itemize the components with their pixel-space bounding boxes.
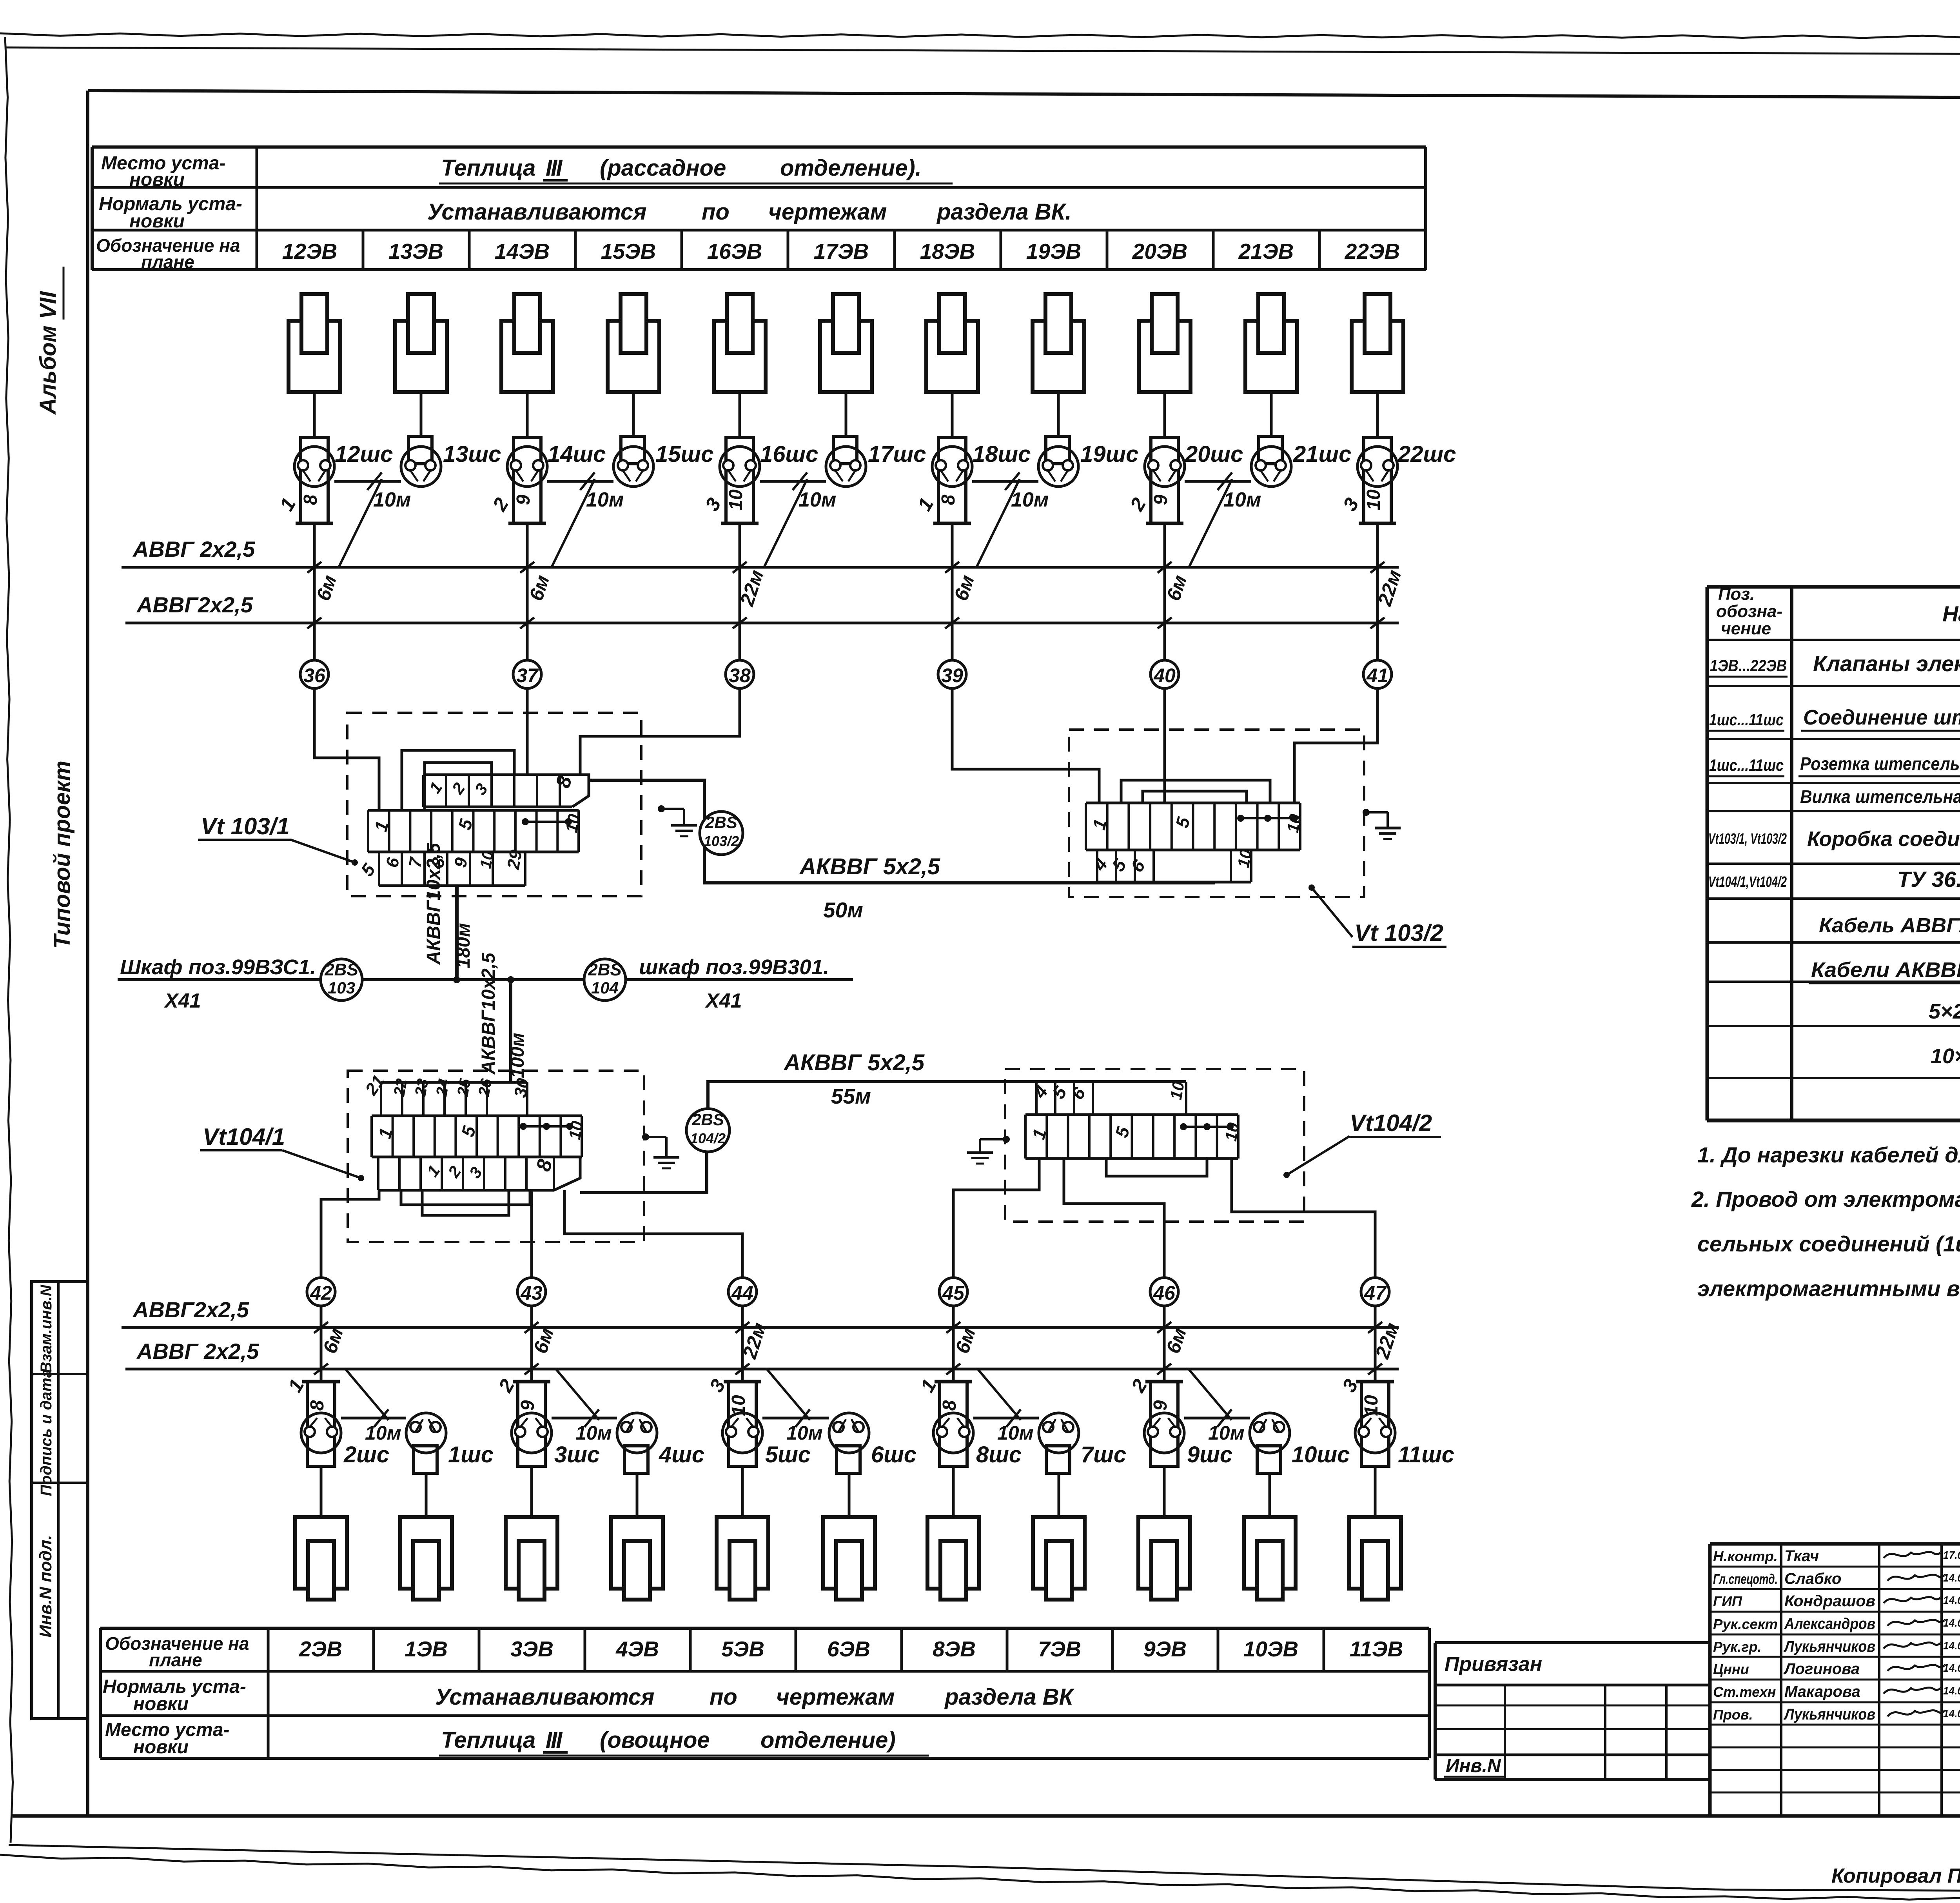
wire drop 38 [733, 523, 768, 660]
wire node 40 to strip [1163, 688, 1166, 803]
svg-text:АВВГ 2х2,5: АВВГ 2х2,5 [136, 1339, 259, 1364]
solenoid valve 19ЭВ [1033, 294, 1084, 392]
svg-text:9ЭВ: 9ЭВ [1143, 1637, 1187, 1661]
top table row Теплица III рассадное отделение [439, 155, 953, 183]
top table cell 22ЭВ [1319, 230, 1400, 270]
wire drop 39 [945, 523, 978, 660]
svg-text:6шс: 6шс [871, 1442, 916, 1467]
svg-text:39: 39 [941, 665, 963, 686]
svg-text:43: 43 [520, 1282, 543, 1304]
node 37 [513, 660, 541, 688]
svg-text:26: 26 [475, 1077, 495, 1098]
node 45 [939, 1278, 967, 1306]
svg-text:2. Провод от электромагнитны: 2. Провод от электромагнитных вентилей (… [1691, 1187, 1960, 1211]
margin label Подпись и дата [38, 1369, 55, 1496]
terminal strip main Vt104/1 [372, 1116, 586, 1157]
top table cell 17ЭВ [788, 230, 869, 270]
svg-text:10: 10 [477, 850, 497, 870]
svg-text:АКВВГ10х2,5: АКВВГ10х2,5 [478, 952, 499, 1075]
bottom table cell 6ЭВ [796, 1628, 870, 1671]
parts row Кабели АКВВГ [1809, 958, 1960, 983]
svg-text:новки: новки [129, 169, 185, 190]
note 1 [1697, 1142, 1960, 1167]
svg-text:25: 25 [454, 1077, 474, 1098]
svg-text:10м: 10м [997, 1422, 1034, 1444]
svg-text:новки: новки [133, 1694, 189, 1714]
bus АВВГ 2х2,5 (fourth) [125, 1339, 1399, 1369]
svg-text:1ЭВ...22ЭВ: 1ЭВ...22ЭВ [1710, 656, 1787, 675]
svg-text:Теплица: Теплица [441, 1727, 535, 1753]
margin label Взам.инв.N [38, 1284, 55, 1373]
svg-text:55м: 55м [831, 1084, 871, 1108]
svg-text:Теплица: Теплица [441, 155, 535, 181]
wire [1163, 392, 1166, 438]
title row Н.контр. [1713, 1547, 1960, 1565]
plug-socket connector 16шс with fuse 10 [701, 438, 818, 523]
wire [1376, 392, 1379, 438]
svg-text:Наименование: Наименование [1942, 601, 1960, 626]
svg-text:50м: 50м [823, 898, 863, 922]
wire pair 5шс-6шс 10м [762, 1369, 829, 1444]
svg-text:29: 29 [504, 848, 526, 871]
top table cell 19ЭВ [1001, 230, 1081, 270]
svg-text:5шс: 5шс [765, 1442, 811, 1467]
parts table header [1716, 585, 1960, 638]
wire drop 45 [946, 1306, 980, 1382]
svg-text:9: 9 [517, 1400, 538, 1411]
solenoid valve 21ЭВ [1245, 294, 1297, 392]
svg-text:14шс: 14шс [548, 441, 606, 467]
wire [952, 1466, 955, 1517]
solenoid valve 15ЭВ [608, 294, 659, 392]
label Инв.N [1444, 1756, 1504, 1777]
bus АВВГ 2х2,5 (lower) [125, 592, 1399, 623]
svg-text:103: 103 [328, 979, 355, 997]
parts row Соединение штепсельное [1708, 706, 1960, 731]
bottom table cell 11ЭВ [1324, 1628, 1403, 1671]
terminal strip main Vt103/2 [1086, 803, 1305, 850]
svg-text:электромагнитными вентилями ф: электромагнитными вентилями фирмой „ Тел… [1697, 1276, 1960, 1301]
solenoid valve 8ЭВ [927, 1517, 979, 1600]
terminal strip lower Vt103/1 [357, 848, 526, 886]
svg-text:Инв.N: Инв.N [1446, 1756, 1501, 1776]
wire 2BS104/2 to Vt104/2 [708, 1082, 1186, 1109]
svg-text:2BS: 2BS [324, 960, 358, 979]
node 40 [1151, 660, 1179, 688]
wire pair 16шс-17шс 10м [760, 472, 836, 567]
bus АВВГ2х2,5 (third) [122, 1297, 1399, 1327]
svg-text:Рук.гр.: Рук.гр. [1713, 1639, 1762, 1655]
svg-text:10: 10 [1363, 489, 1384, 510]
margin text Альбом VII [35, 267, 64, 415]
svg-text:АКВВГ 5х2,5: АКВВГ 5х2,5 [799, 854, 940, 879]
bottom table label Место установки [105, 1720, 229, 1758]
svg-text:по: по [702, 199, 730, 225]
torn paper edge bottom [0, 1855, 1960, 1903]
svg-text:10шс: 10шс [1292, 1442, 1350, 1467]
svg-text:Логинова: Логинова [1783, 1660, 1860, 1678]
label Vt103/1 [198, 813, 358, 866]
wire node 39 to strip [952, 688, 1099, 803]
svg-text:14.01.86: 14.01.86 [1943, 1707, 1960, 1720]
node 41 [1363, 660, 1392, 688]
svg-text:8: 8 [939, 1400, 960, 1411]
svg-text:41: 41 [1366, 665, 1388, 686]
svg-text:Лукьянчиков: Лукьянчиков [1783, 1638, 1875, 1655]
svg-text:14.01.86: 14.01.86 [1943, 1617, 1960, 1629]
plug-socket connector 17шс [826, 436, 926, 487]
svg-text:Гл.спецотд.: Гл.спецотд. [1713, 1571, 1778, 1587]
plug-socket connector 2шс with fuse 8 [284, 1375, 389, 1467]
svg-text:Вилка штепсельная с уплотненны: Вилка штепсельная с уплотненным вводом У… [1800, 786, 1960, 807]
sheet cut edge left [5, 37, 13, 1843]
plug-socket connector 5шс with fuse 10 [705, 1375, 811, 1467]
svg-text:13шс: 13шс [443, 441, 501, 467]
parts row Вилка штепсельная [1800, 782, 1960, 807]
margin label Инв.N подл. [36, 1535, 55, 1638]
svg-text:III: III [546, 155, 563, 181]
bottom table frame [100, 1628, 1429, 1758]
solenoid valve 11ЭВ [1349, 1517, 1401, 1600]
bottom table cell 9ЭВ [1112, 1628, 1187, 1671]
bottom table cell 5ЭВ [690, 1628, 764, 1671]
wire [526, 392, 529, 438]
svg-text:Лукьянчиков: Лукьянчиков [1783, 1706, 1875, 1723]
wire drop 40 [1158, 523, 1191, 660]
svg-text:18шс: 18шс [973, 441, 1031, 467]
svg-text:22ЭВ: 22ЭВ [1345, 239, 1400, 263]
svg-text:9: 9 [1150, 1400, 1171, 1411]
svg-text:8ЭВ: 8ЭВ [933, 1637, 976, 1661]
wire node 47 to strip [1232, 1159, 1375, 1278]
wire [1269, 1473, 1271, 1517]
svg-text:42: 42 [310, 1282, 332, 1304]
svg-text:180м: 180м [453, 923, 474, 968]
title row Ст.техн [1713, 1683, 1960, 1700]
top table frame [92, 147, 1426, 270]
wire [1374, 1466, 1377, 1517]
bus АВВГ 2х2,5 (upper) [122, 537, 1399, 567]
terminal strip upper Vt103/1 [423, 774, 589, 807]
svg-text:Коробка соединительная КС-10: Коробка соединительная КС-10 [1807, 827, 1960, 851]
wire node 46 to strip [1064, 1159, 1164, 1278]
svg-text:Альбом VII: Альбом VII [35, 291, 61, 415]
svg-text:4ЭВ: 4ЭВ [615, 1637, 659, 1661]
solenoid valve 10ЭВ [1244, 1517, 1296, 1600]
svg-text:Кабель АВВГ2х2,5-0,66 ГОСТ 1: Кабель АВВГ2х2,5-0,66 ГОСТ 16442-80 [1819, 914, 1960, 937]
svg-text:III: III [546, 1727, 563, 1753]
svg-text:Александров: Александров [1784, 1615, 1875, 1632]
svg-text:11шс: 11шс [1398, 1442, 1454, 1467]
wire nest Vt104/2 [1106, 1159, 1207, 1176]
wire [1057, 392, 1060, 436]
plug-socket connector 15шс [613, 436, 713, 487]
svg-text:36: 36 [303, 665, 326, 686]
svg-text:15шс: 15шс [655, 441, 713, 467]
svg-text:Устанавливаются: Устанавливаются [427, 199, 646, 225]
junction box Vt104/1 dashed outline [348, 1071, 644, 1242]
svg-text:обозна-: обозна- [1716, 602, 1782, 621]
wire pair 12шс-13шс 10м [334, 472, 411, 567]
plug-socket connector 18шс with fuse 8 [913, 438, 1031, 523]
svg-text:Подпись и дата: Подпись и дата [38, 1369, 55, 1496]
wire [951, 392, 954, 438]
svg-text:1шс...11шс: 1шс...11шс [1709, 710, 1784, 729]
svg-text:10: 10 [1361, 1395, 1382, 1416]
svg-text:1ЭВ: 1ЭВ [405, 1637, 448, 1661]
svg-text:9: 9 [513, 494, 534, 505]
note 2 line 1 [1691, 1187, 1960, 1211]
wire node 41 to strip [1294, 688, 1377, 803]
svg-text:2ЭВ: 2ЭВ [299, 1637, 342, 1661]
node 2BS 103/2 [700, 812, 743, 855]
top table cell 16ЭВ [682, 230, 762, 270]
svg-text:23: 23 [412, 1077, 432, 1098]
svg-text:новки: новки [133, 1737, 189, 1758]
plug-socket connector 12шс with fuse 8 [276, 438, 393, 523]
svg-text:Vt103/1, Vt103/2: Vt103/1, Vt103/2 [1708, 831, 1787, 847]
wire pair 9шс-10шс 10м [1184, 1369, 1250, 1444]
svg-text:40: 40 [1153, 665, 1176, 686]
top table label Место установки [101, 153, 225, 190]
solenoid valve 20ЭВ [1139, 294, 1191, 392]
svg-text:14.01.86: 14.01.86 [1943, 1594, 1960, 1606]
wire Vt104/1 to 2BS104/2 [580, 1153, 707, 1193]
svg-text:Н.контр.: Н.контр. [1713, 1548, 1778, 1564]
svg-text:16шс: 16шс [760, 441, 818, 467]
svg-text:Устанавливаются: Устанавливаются [435, 1684, 654, 1710]
label Привязан [1445, 1653, 1542, 1676]
wire [1058, 1473, 1060, 1517]
node 46 [1150, 1278, 1178, 1306]
svg-text:Макарова: Макарова [1784, 1683, 1860, 1700]
solenoid valve 14ЭВ [501, 294, 553, 392]
wire Vt103/1 to 2BS103/2 [589, 780, 1215, 883]
plug-socket connector 20шс with fuse 9 [1125, 438, 1243, 523]
solenoid valve 16ЭВ [714, 294, 766, 392]
title row Пров. [1713, 1706, 1960, 1723]
svg-text:5ЭВ: 5ЭВ [721, 1637, 764, 1661]
svg-text:8: 8 [938, 494, 959, 505]
svg-text:21шс: 21шс [1293, 441, 1351, 467]
svg-text:Привязан: Привязан [1445, 1653, 1542, 1676]
svg-text:15ЭВ: 15ЭВ [601, 239, 656, 263]
terminal strip upper Vt104/1 [361, 1072, 533, 1116]
terminal strip lower Vt104/1 [378, 1157, 580, 1190]
wire drop 46 [1157, 1306, 1191, 1382]
svg-text:44: 44 [731, 1282, 753, 1304]
wire [845, 392, 848, 436]
torn paper edge top [0, 33, 1960, 39]
wire [1270, 392, 1273, 436]
solenoid valve 5ЭВ [717, 1517, 768, 1600]
node 39 [938, 660, 966, 688]
svg-text:3ЭВ: 3ЭВ [510, 1637, 554, 1661]
svg-text:17.01.86: 17.01.86 [1943, 1549, 1960, 1561]
title block frame [1710, 1544, 1960, 1815]
plug-socket connector 13шс [401, 436, 501, 487]
plug-socket connector 7шс [1039, 1413, 1126, 1473]
svg-text:14ЭВ: 14ЭВ [495, 239, 550, 263]
svg-text:Ткач: Ткач [1784, 1547, 1819, 1565]
margin text Типовой проект [49, 761, 75, 949]
svg-text:20шс: 20шс [1185, 441, 1243, 467]
label Vt103/2 [1308, 884, 1446, 947]
svg-text:плане: плане [141, 252, 194, 272]
wire шкаф 99В3С1 [118, 978, 321, 981]
svg-text:АКВВГ 5х2,5: АКВВГ 5х2,5 [783, 1050, 925, 1075]
plug-socket connector 19шс [1038, 436, 1138, 487]
bottom table cell 10ЭВ [1218, 1628, 1298, 1671]
svg-text:2шс: 2шс [343, 1442, 389, 1467]
plug-socket connector 9шс with fuse 9 [1127, 1375, 1232, 1467]
svg-text:АВВГ2х2,5: АВВГ2х2,5 [132, 1297, 249, 1322]
top table label Обозначение на плане [96, 235, 240, 272]
junction box Vt103/2 dashed outline [1069, 730, 1364, 897]
wire [313, 392, 316, 438]
solenoid valve 13ЭВ [395, 294, 447, 392]
wire drop 36 [307, 523, 341, 660]
svg-text:9: 9 [1151, 494, 1171, 505]
ground Vt104/2 [967, 1136, 1010, 1164]
top table label Нормаль установки [99, 194, 242, 232]
terminal strip lower Vt103/2 [1089, 848, 1255, 882]
svg-text:104/2: 104/2 [690, 1130, 726, 1146]
parts row Клапаны электромагнитные [1709, 648, 1960, 677]
wire drop 44 [735, 1306, 771, 1382]
label Копировал Полякова [1831, 1865, 1960, 1887]
node 43 [517, 1278, 546, 1306]
wire node 36 to strip [314, 688, 379, 810]
sheet cut edge top [5, 47, 1960, 56]
svg-text:плане: плане [149, 1650, 202, 1670]
svg-text:10м: 10м [373, 488, 411, 511]
svg-text:12ЭВ: 12ЭВ [282, 239, 337, 263]
svg-text:ТУ 36.1764- 79: ТУ 36.1764- 79 [1897, 867, 1960, 892]
bottom table cell 2ЭВ [268, 1628, 342, 1671]
wire [530, 1466, 533, 1517]
wire node 44 to strip [564, 1190, 742, 1278]
svg-text:22шс: 22шс [1397, 441, 1456, 467]
ground Vt104/1 [642, 1133, 679, 1168]
plug-socket connector 4шс [617, 1413, 704, 1473]
svg-text:8: 8 [307, 1400, 328, 1411]
svg-text:10м: 10м [365, 1422, 401, 1444]
wire drop 41 [1370, 523, 1406, 660]
svg-text:ГИП: ГИП [1713, 1593, 1742, 1609]
svg-text:10×2,5: 10×2,5 [1931, 1044, 1960, 1068]
svg-text:(овощное: (овощное [600, 1727, 710, 1753]
label шкаф поз.99В301 Х41 [639, 955, 829, 1012]
bottom table cell 7ЭВ [1007, 1628, 1081, 1671]
wire pair 18шс-19шс 10м [972, 472, 1049, 567]
svg-text:9шс: 9шс [1187, 1442, 1232, 1467]
svg-text:20ЭВ: 20ЭВ [1132, 239, 1187, 263]
svg-text:10м: 10м [786, 1422, 823, 1444]
plug-socket connector 10шс [1250, 1413, 1350, 1473]
bottom table row Теплица III овощное отделение [439, 1727, 929, 1756]
top table row Устанавливаются по чертежам раздела ВК [427, 199, 1071, 225]
solenoid valve 1ЭВ [400, 1517, 452, 1600]
svg-text:Пров.: Пров. [1713, 1707, 1753, 1723]
wire [636, 1473, 639, 1517]
svg-text:21ЭВ: 21ЭВ [1238, 239, 1294, 263]
svg-text:(рассадное: (рассадное [600, 155, 726, 181]
svg-text:отделение).: отделение). [780, 155, 922, 181]
bottom table label Обозначение на плане [105, 1633, 249, 1670]
svg-text:по: по [710, 1684, 737, 1710]
parts row Розетка штепсельная [1708, 749, 1960, 776]
terminal strip main Vt103/1 [368, 810, 583, 852]
wire node 43 to strip [530, 1190, 533, 1278]
wire drop 43 [524, 1306, 558, 1382]
cable drop АКВВГ 10х2,5 100м [478, 952, 528, 1082]
svg-text:Типовой проект: Типовой проект [49, 761, 75, 949]
wire node 42 to strip [321, 1190, 379, 1278]
wire nest Vt103/1 [402, 750, 514, 810]
top table cell 18ЭВ [895, 230, 975, 270]
node 36 [300, 660, 328, 688]
title row Гл.спецотд. [1713, 1570, 1960, 1587]
node 42 [307, 1278, 335, 1306]
svg-text:8: 8 [300, 494, 321, 505]
svg-text:2BS: 2BS [705, 813, 737, 832]
solenoid valve 9ЭВ [1138, 1517, 1190, 1600]
svg-text:чение: чение [1721, 619, 1771, 638]
svg-text:Клапаны электромагнитные: Клапаны электромагнитные [1813, 651, 1960, 676]
svg-text:8шс: 8шс [976, 1442, 1022, 1467]
wire шкаф 99В301 [626, 978, 853, 981]
frame border top [88, 91, 1960, 99]
svg-text:Взам.инв.N: Взам.инв.N [38, 1284, 55, 1373]
svg-text:3шс: 3шс [554, 1442, 600, 1467]
bottom table cell 3ЭВ [479, 1628, 554, 1671]
wire drop 42 [314, 1306, 347, 1382]
bottom table cell 4ЭВ [585, 1628, 659, 1671]
cable label АКВВГ 5х2,5 55м [783, 1050, 925, 1108]
wire drop 47 [1368, 1306, 1403, 1382]
svg-text:Рук.сект: Рук.сект [1713, 1616, 1778, 1632]
label Шкаф поз.99В3С1 Х41 [120, 955, 316, 1012]
frame border bottom [13, 1814, 1960, 1818]
svg-text:5×2,5: 5×2,5 [1929, 1000, 1960, 1023]
svg-text:10м: 10м [1223, 488, 1261, 511]
bottom table row Устанавливаются по чертежам раздела ВК [435, 1684, 1074, 1710]
svg-text:Vt104/1,Vt104/2: Vt104/1,Vt104/2 [1708, 874, 1787, 890]
top table cell 13ЭВ [363, 230, 443, 270]
top table cell 20ЭВ [1107, 230, 1187, 270]
svg-text:Розетка штепсельная брызгонепр: Розетка штепсельная брызгонепроницаемая … [1800, 754, 1960, 774]
svg-text:раздела ВК: раздела ВК [944, 1684, 1074, 1710]
plug-socket connector 6шс [829, 1413, 916, 1473]
svg-text:Ст.техн: Ст.техн [1713, 1684, 1776, 1700]
solenoid valve 7ЭВ [1033, 1517, 1085, 1600]
svg-text:Vt104/2: Vt104/2 [1350, 1110, 1432, 1136]
svg-text:6ЭВ: 6ЭВ [827, 1637, 870, 1661]
plug-socket connector 11шс with fuse 10 [1338, 1375, 1454, 1467]
plug-socket connector 22шс with fuse 10 [1339, 438, 1456, 523]
wire pair 14шс-15шс 10м [547, 472, 624, 567]
top table cell 14ЭВ [469, 230, 550, 270]
svg-text:Vt 103/2: Vt 103/2 [1354, 920, 1443, 946]
wire pair 3шс-4шс 10м [552, 1369, 617, 1444]
solenoid valve 12ЭВ [289, 294, 340, 392]
svg-text:Шкаф поз.99ВЗС1.: Шкаф поз.99ВЗС1. [120, 955, 316, 979]
svg-text:Кабели АКВВГ ГОСТ 1508-78: Кабели АКВВГ ГОСТ 1508-78 [1811, 958, 1960, 982]
parts row 10х2,5 [1931, 1042, 1960, 1070]
cable label АКВВГ 5х2,5 50м [799, 854, 940, 922]
attachment table [1435, 1643, 1710, 1780]
